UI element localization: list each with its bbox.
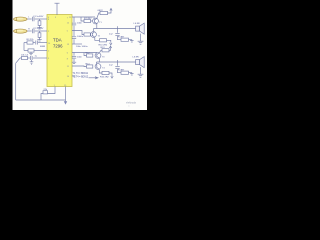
resistor R13 bbox=[102, 49, 109, 52]
wire switch down bbox=[15, 63, 17, 100]
transistor Q4 bbox=[95, 64, 101, 70]
wire input ch1 bbox=[27, 18, 32, 20]
black backdrop bbox=[0, 0, 160, 110]
wire speaker1 to ground bbox=[140, 34, 142, 42]
wire feedback left bbox=[23, 43, 25, 51]
supply arrow +V ch1 bbox=[110, 8, 112, 10]
resistor R16 zobel bbox=[121, 71, 129, 74]
capacitor C2 bbox=[31, 29, 33, 33]
wire IC pin to Q4 base bbox=[72, 65, 87, 68]
wire mute row bbox=[20, 57, 22, 59]
resistor R5 bbox=[22, 56, 28, 59]
speaker LS2 bbox=[136, 60, 140, 65]
svg-text:R 4R7: R 4R7 bbox=[118, 37, 125, 39]
supply arrow -V ch1 bbox=[110, 43, 112, 45]
svg-text:TDA: TDA bbox=[53, 38, 62, 43]
ground ch2 input bbox=[37, 39, 41, 41]
speaker LS1 bbox=[136, 26, 140, 31]
wire IC bottom pin2 to ground bbox=[65, 87, 67, 103]
wire C1 to IC pin bbox=[35, 18, 47, 20]
wire Q4 top bbox=[96, 62, 98, 64]
ground cap ch2 bbox=[72, 61, 76, 63]
resistor R9 bbox=[84, 33, 90, 36]
wire supply cap column ch2 bbox=[73, 53, 75, 56]
wire input ch2 bbox=[27, 30, 32, 32]
wire base Q1 bbox=[81, 17, 84, 21]
wire IC right top bbox=[72, 16, 95, 18]
capacitor C6 bbox=[72, 22, 76, 24]
svg-text:R3 22k: R3 22k bbox=[27, 39, 35, 41]
svg-text:ro: ro bbox=[128, 106, 130, 108]
resistor R2 to ground bbox=[39, 31, 41, 33]
svg-text:C1 1u/63V: C1 1u/63V bbox=[33, 16, 44, 18]
svg-text:R7 2R2: R7 2R2 bbox=[84, 18, 92, 20]
resistor R12 bbox=[87, 54, 93, 57]
transistor Q2 bbox=[91, 32, 97, 38]
white schematic sheet bbox=[13, 0, 148, 110]
IC U1 TDA7296 body bbox=[47, 15, 72, 87]
svg-text:1000u: 1000u bbox=[77, 36, 84, 38]
ground feedback bbox=[30, 52, 32, 53]
wire emitter Q1 to output bbox=[96, 24, 98, 29]
transistor Q1 bbox=[93, 18, 99, 24]
capacitor C9 bbox=[72, 55, 76, 57]
svg-text:100n 1000u: 100n 1000u bbox=[76, 46, 88, 48]
wire emitter Q3 to output bbox=[98, 58, 100, 62]
svg-text:100n: 100n bbox=[77, 57, 83, 59]
power flag +Vs bbox=[55, 2, 60, 4]
jack J2 bbox=[13, 29, 27, 33]
wire speaker2 to ground bbox=[140, 67, 142, 74]
resistor R14 bbox=[87, 65, 93, 68]
ground zobel ch2 bbox=[130, 73, 134, 75]
ground ch1 input bbox=[37, 27, 41, 29]
svg-text:T2,T4 = BD912: T2,T4 = BD912 bbox=[73, 77, 89, 79]
wire bottom rail bbox=[16, 99, 66, 101]
wire C2 to IC pin bbox=[35, 30, 47, 32]
wire IC pin to Q2 base bbox=[72, 31, 84, 35]
wire output ch2 bbox=[97, 61, 136, 63]
svg-text:LS 8R: LS 8R bbox=[133, 56, 139, 58]
resistor R3 bbox=[27, 41, 33, 44]
svg-text:elektroda: elektroda bbox=[126, 102, 137, 105]
resistor R10 bbox=[100, 39, 107, 42]
svg-text:C2 1u/63V: C2 1u/63V bbox=[33, 28, 44, 30]
svg-text:680R: 680R bbox=[40, 46, 46, 48]
resistor R15 bbox=[102, 71, 109, 74]
power wire +Vs to IC top bbox=[56, 4, 58, 16]
svg-text:100n: 100n bbox=[77, 22, 83, 24]
capacitor C7 bbox=[72, 36, 76, 38]
ground arrow bottom bbox=[64, 101, 67, 104]
resistor R4 bbox=[28, 49, 34, 52]
resistor R6 bbox=[43, 91, 48, 94]
IC label TDA 7296 bbox=[53, 38, 63, 49]
capacitor C1 bbox=[31, 17, 33, 21]
ground zobel ch1 bbox=[130, 40, 134, 42]
svg-text:0R22: 0R22 bbox=[98, 10, 104, 12]
ground mute cap bbox=[31, 60, 33, 62]
transistor Q3 bbox=[95, 53, 101, 59]
resistor R8 bbox=[100, 11, 108, 14]
pin stub IC right y76 bbox=[72, 75, 76, 77]
wire supply cap column ch1 bbox=[73, 17, 75, 22]
capacitor C3 bbox=[35, 41, 37, 45]
jack J1 bbox=[13, 17, 27, 21]
wire feedback top bbox=[24, 42, 27, 44]
supply arrow +V ch2 bbox=[109, 46, 111, 48]
svg-text:R15 2R2: R15 2R2 bbox=[100, 76, 109, 78]
capacitor C4 bbox=[30, 56, 32, 60]
svg-text:T1,T3 = BD911: T1,T3 = BD911 bbox=[73, 73, 89, 75]
wire Q2 bottom rail bbox=[95, 38, 100, 41]
switch S1 bbox=[16, 58, 20, 63]
zobel C10 ch2 bbox=[117, 60, 119, 66]
svg-text:7296: 7296 bbox=[53, 44, 63, 49]
wire base Q3 bbox=[84, 53, 87, 56]
net arrow out bbox=[89, 77, 98, 79]
wire IC right ch2 bbox=[72, 52, 97, 54]
wire IC bottom pin to R6 bbox=[48, 87, 56, 94]
svg-text:R 4R7: R 4R7 bbox=[118, 70, 125, 72]
resistor R11 zobel bbox=[121, 38, 129, 41]
wire R6 to rail bbox=[41, 94, 43, 101]
wire IC pin to rail bbox=[72, 43, 82, 45]
wire feedback bottom bbox=[24, 50, 28, 52]
supply arrow -V ch2 bbox=[111, 76, 113, 78]
svg-text:10k C4: 10k C4 bbox=[21, 54, 29, 56]
resistor R1 to ground bbox=[39, 19, 41, 21]
IC pin numbers bbox=[48, 17, 72, 87]
resistor R7 bbox=[84, 19, 91, 22]
wire Q4 bottom rail bbox=[99, 70, 102, 73]
wire collector Q3 bbox=[99, 50, 102, 53]
svg-text:LS 8R: LS 8R bbox=[134, 23, 140, 25]
wire collector Q1 bbox=[97, 13, 100, 18]
zobel C8 ch1 bbox=[117, 26, 119, 33]
wire Q2 top bbox=[93, 29, 95, 32]
tiny value labels bbox=[21, 10, 140, 91]
wire output ch1 bbox=[94, 28, 136, 30]
